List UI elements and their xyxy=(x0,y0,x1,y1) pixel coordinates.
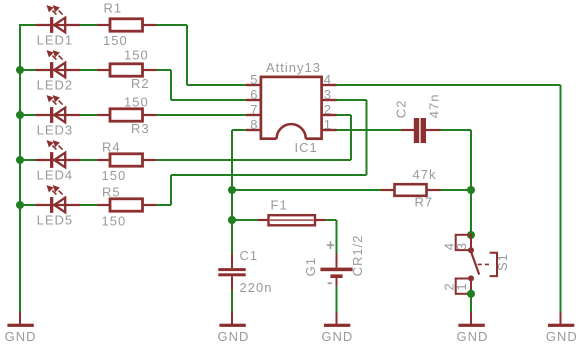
svg-text:C1: C1 xyxy=(240,248,259,263)
svg-text:150: 150 xyxy=(124,94,149,109)
svg-text:S1: S1 xyxy=(495,253,510,271)
svg-text:R3: R3 xyxy=(131,121,150,136)
svg-text:150: 150 xyxy=(124,47,149,62)
svg-text:F1: F1 xyxy=(271,198,288,213)
svg-text:Attiny13: Attiny13 xyxy=(266,60,321,75)
svg-text:LED2: LED2 xyxy=(37,77,74,92)
svg-text:2: 2 xyxy=(324,102,332,117)
svg-text:LED3: LED3 xyxy=(37,122,74,137)
svg-text:150: 150 xyxy=(102,168,127,183)
svg-text:R1: R1 xyxy=(104,1,123,16)
svg-text:7: 7 xyxy=(250,102,258,117)
svg-text:150: 150 xyxy=(102,213,127,228)
svg-text:IC1: IC1 xyxy=(295,140,318,155)
svg-text:CR1/2: CR1/2 xyxy=(350,235,365,277)
svg-text:3: 3 xyxy=(454,242,469,250)
svg-text:R4: R4 xyxy=(102,139,121,154)
svg-text:8: 8 xyxy=(250,117,258,132)
svg-text:GND: GND xyxy=(546,329,578,344)
svg-text:47k: 47k xyxy=(413,167,437,182)
svg-text:5: 5 xyxy=(250,72,258,87)
svg-text:47n: 47n xyxy=(427,93,442,118)
svg-text:GND: GND xyxy=(321,329,353,344)
svg-text:R7: R7 xyxy=(415,195,434,210)
svg-text:G1: G1 xyxy=(303,257,318,276)
svg-text:GND: GND xyxy=(5,329,37,344)
svg-text:1: 1 xyxy=(454,282,469,290)
svg-text:R5: R5 xyxy=(102,184,121,199)
svg-text:LED1: LED1 xyxy=(37,32,74,47)
svg-text:GND: GND xyxy=(457,329,489,344)
svg-text:3: 3 xyxy=(324,87,332,102)
svg-text:6: 6 xyxy=(250,87,258,102)
svg-text:LED5: LED5 xyxy=(37,212,74,227)
svg-text:GND: GND xyxy=(218,329,250,344)
svg-text:C2: C2 xyxy=(393,100,408,119)
svg-text:LED4: LED4 xyxy=(37,167,74,182)
svg-text:150: 150 xyxy=(103,33,128,48)
svg-text:1: 1 xyxy=(324,117,332,132)
svg-text:R2: R2 xyxy=(131,76,150,91)
svg-text:4: 4 xyxy=(324,72,332,87)
svg-text:220n: 220n xyxy=(240,280,273,295)
